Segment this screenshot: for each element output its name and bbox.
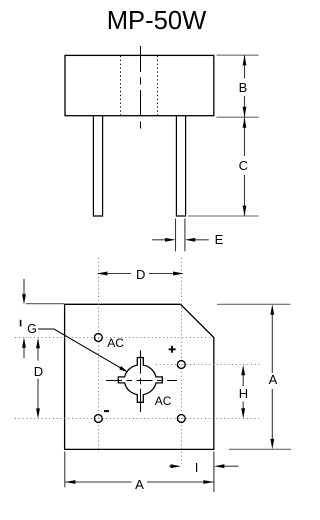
centerline side view: [140, 46, 142, 131]
dim E left arrow: [152, 239, 166, 241]
dim C arrow down: [243, 206, 247, 216]
dim C line: [244, 117, 246, 156]
dim E right arrow: [195, 239, 208, 241]
svg-text:E: E: [215, 232, 224, 247]
dim A bottom: [65, 481, 132, 483]
G leader: [38, 329, 123, 369]
svg-text:G: G: [27, 322, 37, 336]
svg-text:C: C: [239, 158, 248, 173]
B extension line top: [217, 54, 259, 56]
dim B arrow down: [243, 107, 247, 117]
hidden line left: [120, 56, 122, 116]
dim D top right arrow: [173, 272, 183, 276]
dim I bottom: [169, 465, 173, 467]
hole AC bottom-right: [177, 415, 185, 423]
centerline horizontal bottom view: [106, 380, 177, 382]
bottom extension left: [64, 452, 66, 488]
svg-text:H: H: [239, 386, 248, 401]
dim C arrow up: [243, 117, 247, 127]
A extension top right: [217, 303, 290, 305]
svg-text:AC: AC: [107, 336, 124, 350]
side view body: [65, 55, 214, 115]
dim B arrow up: [243, 55, 247, 65]
svg-text:A: A: [269, 372, 278, 387]
hole column line left: [98, 258, 100, 452]
dim D top line: [98, 273, 131, 275]
E extension line left: [175, 219, 177, 252]
hole row line top: [15, 337, 212, 339]
right lead: [176, 116, 185, 216]
dim D left: [37, 347, 39, 361]
label plus: [169, 346, 176, 353]
package outline bottom view: [65, 304, 214, 449]
hole row line bottom: [15, 418, 260, 420]
hole column line right: [181, 258, 183, 466]
dim H: [242, 373, 244, 386]
left lead: [93, 116, 102, 216]
dim D top left arrow: [97, 272, 107, 276]
svg-text:D: D: [34, 364, 43, 379]
E extension line right: [184, 219, 186, 252]
B extension line bottom: [217, 116, 259, 118]
C extension line: [188, 215, 259, 217]
svg-text:MP-50W: MP-50W: [107, 7, 207, 35]
svg-text:D: D: [136, 267, 145, 282]
hidden line right: [157, 56, 159, 116]
dim B line: [244, 55, 246, 78]
A extension bottom right: [229, 448, 291, 450]
dim A right: [271, 313, 273, 373]
mounting hole cross: [118, 358, 162, 403]
label minus: [104, 410, 109, 412]
hole AC top-left: [94, 334, 102, 342]
svg-text:A: A: [135, 477, 144, 492]
hole row line plus: [156, 364, 262, 366]
svg-text:B: B: [239, 80, 248, 95]
svg-text:AC: AC: [155, 394, 172, 408]
centerline vertical bottom view: [140, 350, 142, 412]
top edge extension left: [26, 303, 64, 305]
label I left: [20, 320, 22, 327]
svg-text:I: I: [195, 461, 198, 475]
bottom extension right: [213, 452, 215, 493]
dim I left down arrow: [23, 279, 25, 296]
dim I left up arrow: [23, 346, 25, 358]
hole minus bottom-left: [94, 415, 102, 423]
hole plus top-right: [177, 361, 185, 369]
